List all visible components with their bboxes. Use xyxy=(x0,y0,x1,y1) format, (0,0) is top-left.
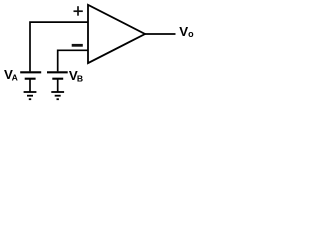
wire non-inverting input from VA xyxy=(30,22,89,71)
svg-text:VA: VA xyxy=(4,67,18,82)
plus input label xyxy=(74,6,83,16)
ground (VA) xyxy=(24,92,37,99)
minus input label xyxy=(72,44,83,47)
svg-text:VB: VB xyxy=(69,68,83,83)
battery VB xyxy=(47,72,68,78)
wire inverting input from VB xyxy=(58,50,89,71)
wire VB battery to ground xyxy=(57,79,59,92)
wire VA battery to ground xyxy=(29,79,31,92)
svg-text:Vo: Vo xyxy=(179,24,194,39)
battery VA xyxy=(20,72,41,78)
wire output xyxy=(144,33,176,35)
ground (VB) xyxy=(51,92,64,99)
op-amp U1 xyxy=(88,5,145,63)
